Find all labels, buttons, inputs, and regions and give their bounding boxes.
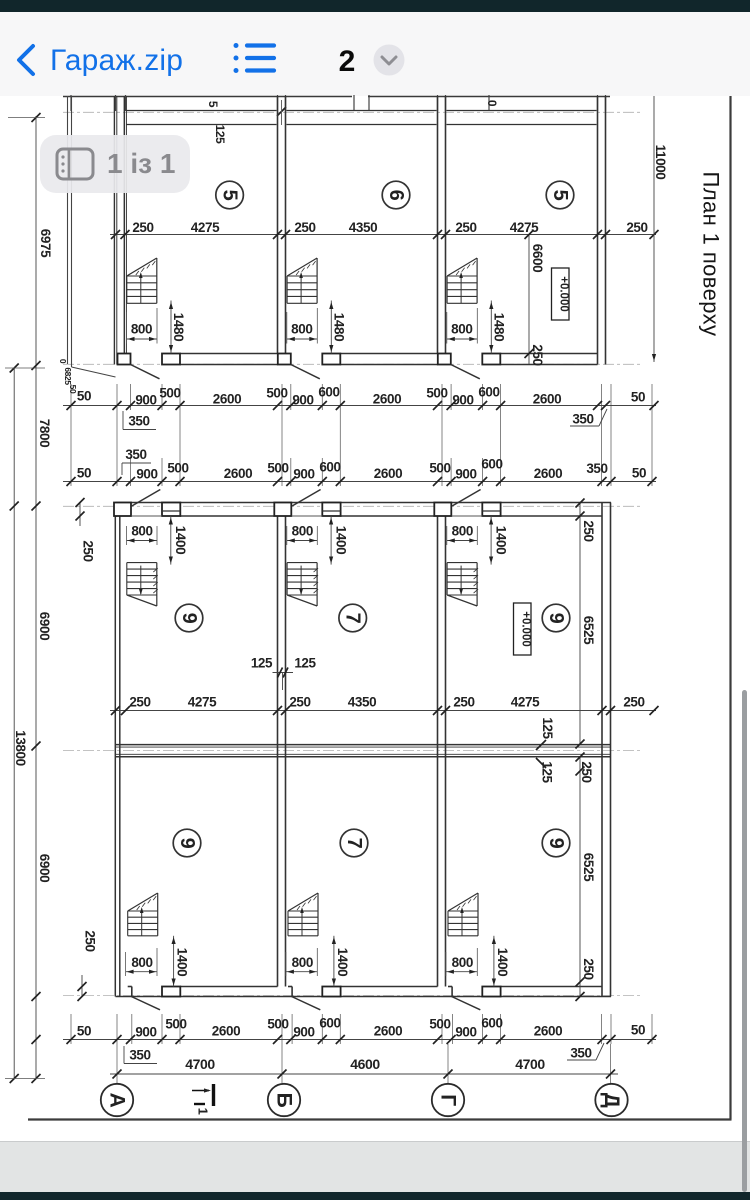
room number circle 7 row3 unit2 xyxy=(340,829,368,857)
stairs row3 unit1 xyxy=(128,893,158,936)
svg-text:600: 600 xyxy=(319,1016,340,1031)
axis marker circle А xyxy=(101,1084,133,1116)
dim line row2 top 900/500/2600 xyxy=(63,477,657,486)
svg-text:Г: Г xyxy=(437,1094,460,1106)
door row2 unit1 jambs xyxy=(114,503,180,517)
svg-text:250: 250 xyxy=(623,695,644,710)
svg-text:2600: 2600 xyxy=(534,1024,562,1039)
svg-text:+0.000: +0.000 xyxy=(520,611,532,647)
dim texts left 6975 7800 6900 13800 6900 xyxy=(13,229,53,882)
wall row1 vertical walls A B G D xyxy=(114,96,605,365)
svg-text:800: 800 xyxy=(452,955,473,970)
svg-text:4350: 4350 xyxy=(349,220,377,235)
svg-text:1400: 1400 xyxy=(173,526,188,554)
svg-text:1400: 1400 xyxy=(335,948,350,976)
door row1 unit2 leaf xyxy=(291,365,320,379)
dim line row3 doors 900/500/2600 xyxy=(63,1035,657,1044)
dim 800 row3 unit1 xyxy=(126,948,157,976)
stairs row2 unit1 xyxy=(127,563,158,606)
svg-text:9: 9 xyxy=(545,838,567,849)
scrollbar xyxy=(742,690,747,1192)
stairs row1 unit3 xyxy=(447,258,477,303)
svg-text:125: 125 xyxy=(294,656,316,671)
svg-text:1400: 1400 xyxy=(333,526,348,554)
svg-text:800: 800 xyxy=(292,524,313,539)
dim 125 125 wall B jog xyxy=(251,656,317,690)
svg-text:500: 500 xyxy=(429,1017,450,1032)
svg-text:50: 50 xyxy=(631,390,645,405)
svg-text:50: 50 xyxy=(631,1023,645,1038)
dim 250 6525 250 right row3 xyxy=(576,753,597,1002)
svg-text:4700: 4700 xyxy=(185,1056,215,1072)
stairs row2 unit3 xyxy=(447,563,478,606)
status bar dark strip xyxy=(0,0,750,12)
door row2 unit1 leaf xyxy=(132,490,161,507)
svg-text:900: 900 xyxy=(293,1025,314,1040)
svg-text:250: 250 xyxy=(530,344,545,365)
dim lines left column verticals xyxy=(5,113,45,1083)
svg-text:600: 600 xyxy=(318,385,339,400)
room number circle 9 row2 unit3 xyxy=(542,604,570,632)
svg-text:1400: 1400 xyxy=(175,948,190,976)
svg-text:9: 9 xyxy=(545,613,567,624)
svg-text:2600: 2600 xyxy=(534,466,562,481)
svg-text:500: 500 xyxy=(267,1017,288,1032)
stairs row3 unit3 xyxy=(448,893,478,936)
room number circle 5 row1 unit3 xyxy=(546,181,574,209)
door row2 unit3 leaf xyxy=(452,490,481,507)
svg-text:1400: 1400 xyxy=(493,526,508,554)
svg-text:5: 5 xyxy=(219,190,241,201)
axis marker circle Б xyxy=(268,1084,300,1116)
stairs row1 unit2 xyxy=(287,258,317,303)
svg-text:50: 50 xyxy=(77,1024,91,1039)
svg-text:4275: 4275 xyxy=(191,220,220,235)
svg-text:50: 50 xyxy=(68,385,78,394)
svg-text:600: 600 xyxy=(481,1016,502,1031)
svg-text:800: 800 xyxy=(291,322,312,337)
level mark +0.000 row2 xyxy=(514,603,532,655)
dim 125 at top wall xyxy=(206,100,499,144)
door row3 unit2 leaf xyxy=(292,997,321,1010)
svg-text:А: А xyxy=(106,1093,129,1108)
svg-text:1480: 1480 xyxy=(331,313,346,341)
dim 250 row2 left wall xyxy=(76,498,96,562)
nav title Garazh.zip xyxy=(50,44,183,77)
door row1 unit1 jambs xyxy=(118,354,181,365)
svg-text:500: 500 xyxy=(429,461,450,476)
svg-text:2600: 2600 xyxy=(224,466,252,481)
room number circle 7 row2 unit2 xyxy=(339,604,367,632)
wall party wall rows2-3 xyxy=(115,745,611,757)
dim texts row2 top 50 900 500 2600 xyxy=(77,457,646,482)
svg-text:250: 250 xyxy=(626,220,647,235)
svg-text:800: 800 xyxy=(131,955,152,970)
svg-text:500: 500 xyxy=(165,1017,186,1032)
svg-text:600: 600 xyxy=(481,457,502,472)
svg-text:5: 5 xyxy=(549,190,571,201)
stairs row2 unit2 xyxy=(287,563,318,606)
svg-text:Д: Д xyxy=(600,1093,623,1108)
svg-text:250: 250 xyxy=(581,520,596,541)
dim 350 row1 left xyxy=(123,411,156,430)
svg-text:800: 800 xyxy=(452,524,473,539)
svg-text:6525: 6525 xyxy=(581,616,596,645)
dim 1400 row3 unit1 xyxy=(172,936,190,987)
svg-text:11000: 11000 xyxy=(653,145,668,180)
dim line row1 250/4275 row xyxy=(110,230,659,239)
svg-text:9: 9 xyxy=(178,613,200,624)
svg-text:900: 900 xyxy=(136,467,157,482)
dim 350 row3 right with slash xyxy=(567,1043,604,1061)
svg-text:250: 250 xyxy=(83,930,98,951)
svg-text:350: 350 xyxy=(129,1048,150,1063)
dim texts row3 doors 50 900 500 2600 xyxy=(77,1016,645,1040)
svg-text:0: 0 xyxy=(58,359,68,364)
svg-text:500: 500 xyxy=(159,386,180,401)
wire dash-dot axis lines xyxy=(63,112,642,995)
svg-text:350: 350 xyxy=(572,412,593,427)
dim 4700 4600 4700 axis spacing xyxy=(110,1056,618,1079)
svg-text:7800: 7800 xyxy=(37,419,52,447)
stairs row1 unit1 xyxy=(127,258,157,303)
svg-text:800: 800 xyxy=(131,322,152,337)
svg-text:250: 250 xyxy=(81,540,96,561)
svg-text:900: 900 xyxy=(455,1025,476,1040)
wire extension lines bottom yard xyxy=(71,1014,652,1083)
svg-text:4600: 4600 xyxy=(350,1056,380,1072)
svg-text:500: 500 xyxy=(266,386,287,401)
wall row3 bottom wall xyxy=(116,987,612,997)
dim 1480 row1 unit2 xyxy=(329,301,346,354)
svg-text:250: 250 xyxy=(132,220,153,235)
dim 1400 row2 unit1 xyxy=(169,516,188,565)
axis marker circle Д xyxy=(595,1084,627,1116)
svg-text:1: 1 xyxy=(196,1108,211,1115)
dim 800 row3 unit3 xyxy=(446,948,477,976)
dim line row1 doors 900/500/2600 xyxy=(63,401,659,410)
door row1 unit1 leaf xyxy=(131,365,160,379)
dim 800 row2 unit3 xyxy=(447,524,478,545)
drawing title Plan 1 poverkhu xyxy=(699,172,724,337)
room number circle 9 row3 unit3 xyxy=(542,829,570,857)
svg-text:50: 50 xyxy=(77,389,91,404)
wire top cut walls of upper garages xyxy=(63,95,610,125)
door row3 unit3 leaf xyxy=(452,997,481,1010)
svg-text:250: 250 xyxy=(455,220,476,235)
dim 11000 right top xyxy=(652,96,668,362)
svg-text:900: 900 xyxy=(455,467,476,482)
svg-text:Б: Б xyxy=(273,1093,296,1108)
svg-text:7: 7 xyxy=(343,838,365,849)
svg-text:125: 125 xyxy=(251,656,273,671)
dim 250 row3 left wall xyxy=(78,930,98,1001)
svg-text:250: 250 xyxy=(579,761,594,782)
door row1 unit3 leaf xyxy=(451,365,480,379)
svg-text:2600: 2600 xyxy=(213,392,241,407)
dim texts row1 doors 50 900 500 2600 xyxy=(77,385,645,408)
room number circle 5 row1 unit1 xyxy=(216,181,244,209)
svg-text:900: 900 xyxy=(135,1025,156,1040)
dim 350 row1 right with slash xyxy=(570,409,607,427)
svg-text:6600: 6600 xyxy=(530,244,545,272)
page badge 1 of 1 xyxy=(40,135,190,193)
dim texts row2 bottom 250 4275 250 4350 250 4275 250 xyxy=(129,695,644,710)
svg-text:2600: 2600 xyxy=(373,392,401,407)
svg-text:9: 9 xyxy=(176,838,198,849)
svg-text:600: 600 xyxy=(478,385,499,400)
navigation bar xyxy=(0,12,750,96)
svg-text:6525: 6525 xyxy=(581,853,596,882)
svg-text:600: 600 xyxy=(319,460,340,475)
svg-text:250: 250 xyxy=(289,695,310,710)
wall row1 bottom wall segments xyxy=(180,354,598,365)
wall rows2-3 vertical walls A B G D xyxy=(115,503,610,997)
dim 800 row1 unit3 xyxy=(447,308,478,344)
svg-text:13800: 13800 xyxy=(13,730,28,766)
svg-text:2600: 2600 xyxy=(212,1024,240,1039)
door row3 unit2 jambs xyxy=(288,987,341,997)
dim small texts 0 6825 50 left jog xyxy=(58,359,78,394)
bottom gray band xyxy=(0,1141,750,1193)
svg-text:900: 900 xyxy=(292,393,313,408)
room number circle 9 row2 unit1 xyxy=(175,604,203,632)
axis marker circle Г xyxy=(432,1084,464,1116)
svg-text:250: 250 xyxy=(453,695,474,710)
wall row2 top wall xyxy=(116,503,612,517)
svg-text:6900: 6900 xyxy=(37,854,52,882)
svg-text:4275: 4275 xyxy=(511,695,540,710)
svg-text:250: 250 xyxy=(129,695,150,710)
svg-text:2600: 2600 xyxy=(374,466,402,481)
room number circle 9 row3 unit1 xyxy=(173,829,201,857)
level mark +0.000 row1 xyxy=(552,268,570,320)
svg-text:900: 900 xyxy=(293,467,314,482)
svg-text:350: 350 xyxy=(128,414,149,429)
wire extension lines between buildings xyxy=(71,384,652,486)
svg-text:50: 50 xyxy=(77,466,91,481)
dim 1480 row1 unit1 xyxy=(169,301,186,354)
dim 1480 row1 unit3 xyxy=(489,301,506,354)
svg-text:6975: 6975 xyxy=(38,229,53,258)
wall row1 left outer wall with diagonal jog xyxy=(68,96,116,377)
svg-text:125: 125 xyxy=(213,125,227,145)
door row3 unit3 jambs xyxy=(448,987,501,997)
svg-text:7: 7 xyxy=(342,613,364,624)
door row3 unit1 leaf xyxy=(131,997,160,1010)
svg-text:План 1 поверху: План 1 поверху xyxy=(699,172,724,337)
dim 350 row3 left xyxy=(124,1046,157,1064)
svg-text:6900: 6900 xyxy=(37,612,52,640)
svg-text:50: 50 xyxy=(632,466,646,481)
dim 800 row2 unit2 xyxy=(287,524,318,545)
svg-text:4350: 4350 xyxy=(348,695,376,710)
dim texts row1 250 4275 250 4350 250 4275 250 xyxy=(132,220,647,235)
svg-text:1480: 1480 xyxy=(171,313,186,341)
svg-text:6: 6 xyxy=(385,190,407,201)
svg-text:2600: 2600 xyxy=(533,392,561,407)
svg-text:4275: 4275 xyxy=(510,220,539,235)
dim 1400 row2 unit2 xyxy=(329,516,348,565)
svg-text:500: 500 xyxy=(426,386,447,401)
svg-text:2600: 2600 xyxy=(374,1024,402,1039)
door row1 unit3 jambs xyxy=(438,354,501,365)
door row2 unit2 jambs xyxy=(274,503,340,517)
svg-text:500: 500 xyxy=(267,461,288,476)
svg-text:350: 350 xyxy=(586,461,607,476)
svg-text:800: 800 xyxy=(451,322,472,337)
svg-text:250: 250 xyxy=(581,958,596,979)
stairs row3 unit2 xyxy=(288,893,318,936)
svg-text:900: 900 xyxy=(135,393,156,408)
back chevron xyxy=(19,46,33,74)
svg-text:1400: 1400 xyxy=(495,948,510,976)
svg-text:+0.000: +0.000 xyxy=(558,276,570,312)
svg-text:125: 125 xyxy=(540,717,555,739)
dim 6600 row1 unit3 xyxy=(525,230,546,366)
section mark 1-1 xyxy=(192,1084,214,1115)
svg-text:900: 900 xyxy=(452,393,473,408)
dim line row2 bottom 250/4275 row xyxy=(110,706,659,715)
list icon xyxy=(234,43,275,73)
svg-text:350: 350 xyxy=(570,1046,591,1061)
dim 125 at party wall right xyxy=(536,717,555,783)
dim 1400 row3 unit3 xyxy=(492,936,510,987)
dim 1400 row3 unit2 xyxy=(332,936,350,987)
svg-text:4275: 4275 xyxy=(188,695,217,710)
dim 800 row3 unit2 xyxy=(286,948,317,976)
page number 2 xyxy=(339,45,356,78)
door row3 unit1 jambs xyxy=(128,987,181,997)
svg-text:250: 250 xyxy=(294,220,315,235)
svg-text:350: 350 xyxy=(125,447,146,462)
dim 800 row1 unit2 xyxy=(287,308,318,344)
dropdown circle xyxy=(374,45,405,76)
svg-text:1480: 1480 xyxy=(491,313,506,341)
room number circle 6 row1 unit2 xyxy=(382,181,410,209)
door row2 unit2 leaf xyxy=(292,490,321,507)
svg-text:5: 5 xyxy=(206,101,220,108)
door row2 unit3 jambs xyxy=(434,503,500,517)
dim 800 row2 unit1 xyxy=(127,524,158,545)
dim 350 row2 left bracket xyxy=(122,447,151,475)
dim 1400 row2 unit3 xyxy=(489,516,508,565)
svg-text:0: 0 xyxy=(485,100,499,107)
svg-text:800: 800 xyxy=(131,524,152,539)
svg-text:500: 500 xyxy=(167,461,188,476)
door row1 unit2 jambs xyxy=(278,354,341,365)
svg-text:4700: 4700 xyxy=(515,1056,545,1072)
svg-text:800: 800 xyxy=(292,955,313,970)
dim 800 row1 unit1 xyxy=(127,308,158,344)
dim 250 6525 right row2 xyxy=(576,499,597,749)
svg-text:6825: 6825 xyxy=(63,367,73,385)
